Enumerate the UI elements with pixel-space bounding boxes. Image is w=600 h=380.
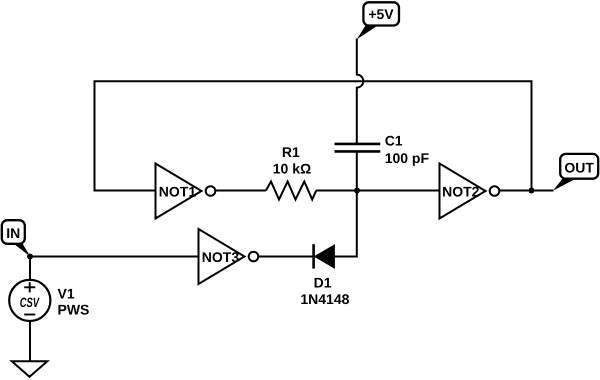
port IN flag (2, 220, 31, 257)
wire: C1 bottom to node (356, 152, 358, 191)
svg-text:IN: IN (6, 225, 20, 241)
op-amp: inverter NOT1 (156, 164, 216, 219)
node: junction R1/C1/D1 (354, 188, 360, 194)
svg-text:CSV: CSV (20, 295, 40, 310)
ground (12, 361, 48, 377)
svg-text:C1: C1 (385, 133, 403, 149)
svg-text:PWS: PWS (58, 302, 90, 318)
wire: R1 to NOT2 input through node (316, 190, 439, 192)
port OUT flag (553, 154, 598, 191)
wire: V1 to ground (29, 322, 31, 362)
svg-text:1N4148: 1N4148 (300, 291, 349, 307)
svg-text:10 kΩ: 10 kΩ (273, 160, 311, 176)
svg-text:NOT2: NOT2 (442, 184, 480, 200)
wire: feedback loop NOT1 input / top rail / down to output node (95, 81, 532, 190)
svg-text:+5V: +5V (368, 6, 394, 22)
node: output junction (529, 188, 535, 194)
voltage source V1 (9, 280, 50, 321)
op-amp: inverter NOT2 (440, 164, 500, 219)
svg-text:D1: D1 (314, 274, 332, 290)
svg-text:OUT: OUT (564, 159, 594, 175)
wire: NOT3 output to D1 (259, 256, 314, 258)
wire: NOT2 output to OUT (500, 190, 554, 192)
svg-text:NOT1: NOT1 (159, 184, 197, 200)
svg-text:V1: V1 (58, 286, 75, 302)
svg-text:R1: R1 (282, 144, 300, 160)
svg-text:NOT3: NOT3 (202, 249, 240, 265)
op-amp: inverter NOT3 (199, 229, 259, 284)
wire: IN node to NOT3 input (30, 256, 199, 258)
wire: NOT1 output to R1 (216, 190, 267, 192)
capacitor C1 (335, 144, 381, 152)
wire: +5V down with hop over feedback rail (357, 39, 364, 144)
resistor R1 (266, 182, 316, 200)
wire: node down to diode row (334, 191, 357, 257)
diode D1 (314, 244, 335, 268)
svg-text:100 pF: 100 pF (385, 150, 430, 166)
node: input junction (27, 254, 33, 260)
wire: IN node down to V1 (29, 257, 31, 282)
power +5V flag (357, 2, 399, 39)
